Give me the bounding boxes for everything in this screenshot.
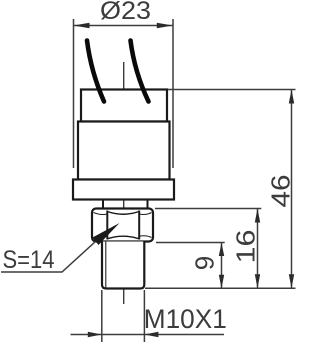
extension line from stud bottom (shared baseline) [145, 287, 296, 289]
flange [73, 180, 174, 200]
dimension line 16 with arrows [255, 209, 260, 289]
neck between flange and hex [103, 200, 148, 209]
M10x1 extension line left [101, 290, 103, 342]
extension line from hex bottom (9 dim) [156, 242, 225, 244]
extension line from hex top (16 dim) [155, 208, 261, 210]
dimension line 9 with arrows [219, 243, 224, 289]
leader S=14 [1, 223, 120, 272]
thread minor diameter line [105, 242, 107, 288]
svg-text:46: 46 [266, 175, 296, 208]
M10x1 extension line right [143, 290, 145, 342]
body (main housing) [78, 122, 170, 180]
svg-text:Ø23: Ø23 [100, 0, 151, 25]
dimension line 46 with arrows [289, 90, 294, 289]
dimension Ø23 extension line right [172, 19, 174, 168]
svg-text:M10X1: M10X1 [144, 304, 227, 334]
threaded stud M10x1 [102, 242, 144, 289]
dimension line Ø23 with arrows [74, 23, 173, 28]
dimension line M10x1 with outside arrows [71, 332, 225, 337]
svg-text:9: 9 [190, 256, 220, 270]
centerline [123, 62, 125, 304]
wire W1 (left lead) [87, 41, 104, 102]
dimension Ø23 extension line left [73, 19, 75, 168]
wire W2 (right lead) [131, 41, 149, 102]
extension line from cap top (46 dim) [168, 89, 296, 91]
cap (top housing section) [81, 90, 167, 122]
svg-text:16: 16 [231, 230, 261, 264]
hex nut (S=14) [92, 209, 153, 242]
svg-text:S=14: S=14 [3, 246, 55, 274]
